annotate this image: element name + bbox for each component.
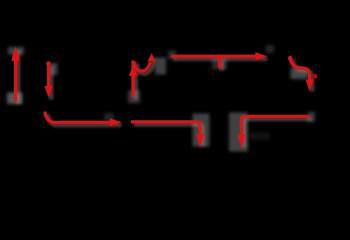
voltage source symbol halo: [7, 93, 23, 105]
wire shadow: capacitor stub: [220, 60, 225, 71]
transformer top halo: [168, 51, 176, 60]
wire shadow: primary branch current arrow: [49, 66, 54, 100]
arrowhead: current down right side: [305, 80, 313, 92]
wire shadow: diode output bend: [292, 59, 312, 92]
arrowhead: hop arrow up: [147, 53, 155, 62]
wire shadow: secondary branch current arrow: [133, 63, 138, 100]
primary winding start halo: [51, 63, 58, 75]
capacitor box halo: [193, 114, 210, 147]
arrowhead halo at source top: [8, 47, 24, 55]
arrowhead: bottom-left current right: [110, 118, 122, 126]
wire: source branch (input current, upward): [14, 57, 17, 102]
wire: bottom-left return with bend: [45, 112, 110, 123]
wire: primary branch (current downward): [47, 63, 50, 88]
wire shadow: bottom-right return wire: [244, 119, 312, 148]
junction dot: diode cathode bend start: [288, 56, 293, 61]
load wire end halo: [308, 112, 316, 122]
wire shadow: winding hop arrow: [137, 58, 155, 74]
halo above bottom-left arrowhead: [104, 113, 114, 121]
wire shadow: bottom-middle wire: [134, 124, 203, 146]
gray shadow layer: offset copies of the red current paths: [18, 50, 312, 148]
wire shadow: source branch current arrow: [16, 50, 21, 104]
secondary winding halo: [155, 58, 166, 75]
wire shadow: bottom-left wire: [47, 114, 121, 125]
arrowhead: secondary current up: [129, 64, 137, 76]
component halos (anti-alias remnants of black symbols): [7, 45, 315, 152]
arrowhead: primary current down: [44, 86, 52, 98]
wire: bottom-right return wire with bend: [241, 116, 309, 133]
diode symbol halo: [266, 45, 275, 53]
node speck above diode: [270, 46, 273, 49]
diode cathode halo: [291, 68, 309, 79]
node nub right of bend: [313, 74, 317, 78]
arrowhead: current down into capacitor: [196, 134, 204, 148]
arrowhead: top current right: [255, 52, 267, 60]
wire: secondary branch (current upward): [131, 61, 134, 98]
wire: bottom-middle wire with bend down: [131, 122, 200, 134]
red current-flow layer: [12, 46, 318, 148]
secondary bottom end halo: [128, 90, 140, 103]
junction dot: primary branch start: [46, 61, 51, 66]
wire: diode output bend: [290, 57, 310, 80]
wire: capacitor branch stub: [218, 57, 221, 66]
wire: hop arrow over winding: [134, 62, 150, 72]
arrowhead: current down into load: [237, 134, 245, 148]
load resistor box halo: [229, 113, 248, 152]
circuit schematic: flyback-converter style current-flow diagram; black wires invisible on black bg, red current arrows with gray halos: [0, 0, 350, 159]
wire: top output wire: [171, 55, 256, 58]
capacitor stub junction halo: [212, 58, 227, 70]
wire shadow: top wire: [174, 56, 268, 61]
arrowhead: input current up: [12, 47, 20, 62]
label smudge: [250, 132, 270, 140]
arrowhead: stub tip: [217, 65, 222, 69]
